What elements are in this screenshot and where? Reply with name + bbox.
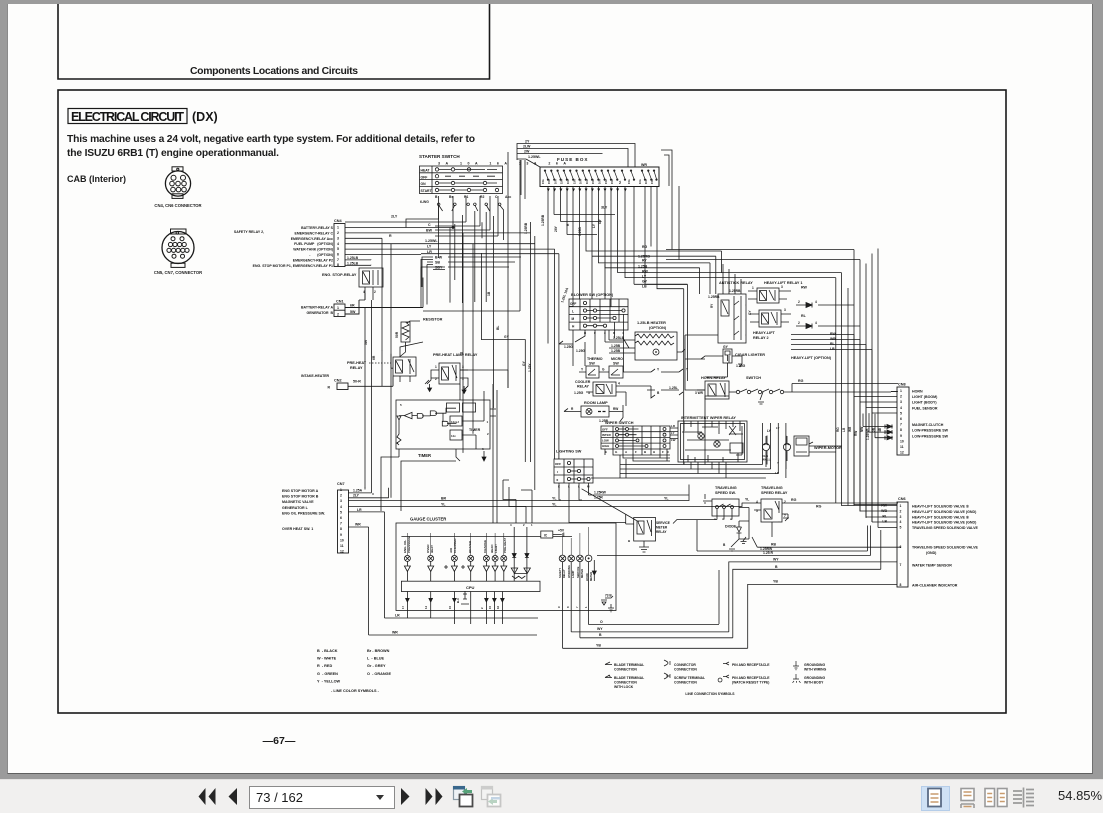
svg-text:OFF: OFF [421,175,428,179]
svg-text:B-C: B-C [456,598,460,603]
svg-text:6-WG: 6-WG [420,200,429,204]
svg-text:L: L [572,310,574,314]
svg-text:Y: Y [581,368,584,372]
svg-text:CN8: CN8 [898,383,906,387]
svg-text:WR: WR [355,523,361,527]
svg-text:THERMO: THERMO [587,357,603,361]
svg-text:LY: LY [427,245,432,249]
wire bundle mid verticals [423,152,559,523]
svg-text:YB: YB [596,644,601,648]
svg-text:LIGHT (BODY): LIGHT (BODY) [912,401,937,405]
blower switch SW2 (option) [560,287,628,342]
svg-text:ENG STOP MOTOR B: ENG STOP MOTOR B [282,495,319,499]
IC block +5V [401,529,572,539]
svg-text:RY: RY [642,259,647,263]
svg-text:1: 1 [531,523,533,527]
svg-text:1.25 R: 1.25 R [763,551,774,555]
svg-text:1.25R: 1.25R [594,496,603,500]
svg-text:RW: RW [801,286,808,290]
svg-text:1: 1 [337,226,339,230]
svg-text:WITH BODY: WITH BODY [804,681,824,685]
svg-text:W - WHITE: W - WHITE [317,657,337,661]
svg-text:H: H [572,325,575,329]
svg-text:WY: WY [597,627,603,631]
svg-text:5: 5 [337,247,339,251]
svg-text:14xxJ: 14xxJ [451,420,459,424]
svg-text:1.25LB HEATER: 1.25LB HEATER [637,321,666,325]
svg-text:NW: NW [860,427,864,432]
svg-text:8: 8 [340,527,342,531]
svg-text:GENERATOR L: GENERATOR L [282,506,309,510]
resistor R1 [395,318,443,358]
svg-text:14x: 14x [451,434,456,438]
svg-text:15A: 15A [572,179,576,184]
svg-text:WR: WR [641,163,647,167]
connector CN8 [885,383,949,456]
svg-text:M: M [572,317,575,321]
svg-text:YL: YL [745,498,749,502]
svg-text:HEAVY-LIFT: HEAVY-LIFT [753,331,776,335]
diode D1 diode D2 (heavy lift) [796,300,817,329]
prev page button [226,786,240,808]
svg-text:HEAVY-LIFT SOLENOID VALVE (: HEAVY-LIFT SOLENOID VALVE (GND) [912,510,977,514]
svg-text:PIN AND RECEPTACLE: PIN AND RECEPTACLE [732,676,770,680]
svg-text:HORN: HORN [912,390,923,394]
svg-text:CLEANER: CLEANER [453,538,457,553]
svg-text:SW: SW [613,362,619,366]
svg-text:B: B [775,565,778,569]
svg-text:YL: YL [441,503,446,507]
main frame [58,90,1006,713]
wires starter to CN4 and down [345,196,528,303]
svg-text:RELAY: RELAY [656,530,667,534]
gauge cluster assembly [263,152,901,747]
svg-text:15A: 15A [547,179,551,184]
CAB (Interior) label [67,174,126,184]
wires CN4 band to lower left [421,222,521,453]
svg-text:2W: 2W [524,150,530,154]
svg-text:LR: LR [671,424,676,428]
heavy-lift option label [791,356,832,360]
svg-text:TIMER: TIMER [469,428,481,432]
svg-text:I: I [557,470,558,474]
svg-text:SB: SB [435,261,440,265]
svg-text:A: A [625,450,628,454]
svg-text:R: R [389,234,392,238]
svg-text:PRE-HEAT: PRE-HEAT [347,361,367,365]
svg-text:(DX): (DX) [192,110,218,124]
svg-text:4: 4 [337,242,339,246]
svg-text:B: B [644,450,647,454]
svg-text:15A: 15A [591,179,595,184]
svg-text:1.25B: 1.25B [611,344,621,348]
svg-text:YB: YB [773,580,778,584]
connector CN4 [334,219,345,267]
svg-text:26Y: 26Y [554,225,558,232]
svg-text:2: 2 [900,509,902,513]
svg-text:2LY: 2LY [353,494,360,498]
svg-text:10A: 10A [638,179,642,184]
connector CN5/CN7 [162,229,194,267]
svg-text:R: R [571,407,574,411]
svg-text:F: F [662,450,664,454]
connector CN6 [881,497,978,588]
CN4 left labels [234,226,334,268]
last page button [423,786,445,808]
svg-text:RG: RG [836,427,840,432]
svg-text:GY: GY [723,345,729,349]
svg-text:CN1: CN1 [336,300,344,304]
svg-text:LR: LR [395,614,400,618]
svg-text:7: 7 [900,423,902,427]
svg-text:Y: Y [777,461,779,465]
svg-text:WATER-TANK (OPTION): WATER-TANK (OPTION) [293,248,333,252]
svg-text:LY: LY [592,223,596,228]
svg-text:5A: 5A [618,181,622,184]
svg-text:3: 3 [337,236,339,240]
svg-text:3 WR: 3 WR [695,391,704,395]
svg-text:2: 2 [900,395,902,399]
connector CN1 battery relay A [301,300,423,317]
svg-text:H: H [653,450,655,454]
svg-text:8: 8 [900,428,902,432]
svg-text:9: 9 [900,434,902,438]
svg-text:LR: LR [775,471,780,475]
svg-text:TIMER: TIMER [418,453,431,458]
paragraph [67,134,475,159]
svg-text:1: 1 [340,488,342,492]
relay K10 traveling speed relay [742,486,898,522]
svg-text:WITH LOCK: WITH LOCK [614,685,634,689]
svg-text:GROUNDING: GROUNDING [804,663,825,667]
svg-text:+5V: +5V [558,529,565,533]
svg-text:OFF: OFF [602,428,608,432]
wire bundle right verticals [684,249,897,528]
svg-text:PIN AND RECEPTACLE: PIN AND RECEPTACLE [732,663,770,667]
svg-text:3A 10A 16A 13A 26A: 3A 10A 16A 13A 26A [438,162,571,166]
svg-text:5: 5 [340,510,342,514]
svg-text:SBY: SBY [435,266,443,270]
svg-text:CN7: CN7 [337,482,345,486]
right lamps [558,527,596,611]
svg-text:C: C [495,195,498,199]
svg-text:15A: 15A [541,179,545,184]
svg-text:F: F [635,450,637,454]
svg-text:5W: 5W [350,310,356,314]
svg-text:15A: 15A [627,179,631,184]
svg-text:WY: WY [773,557,779,561]
svg-text:GENERATOR B: GENERATOR B [306,311,333,315]
diode D3 [723,521,742,551]
svg-text:SCREW TERMINAL: SCREW TERMINAL [674,676,705,680]
wiper switch SW5 [601,421,670,454]
svg-text:14: 14 [424,605,428,609]
svg-text:RG: RG [816,505,822,509]
svg-text:II: II [557,478,559,482]
svg-text:2: 2 [798,300,800,304]
wires wiper area [591,423,842,478]
svg-text:HEAVY-LIFT (OPTION): HEAVY-LIFT (OPTION) [791,356,832,360]
svg-text:9: 9 [557,606,561,608]
title ELECTRICAL CIRCUIT (DX) [71,110,218,124]
svg-text:1: 1 [435,365,437,369]
svg-text:4: 4 [340,505,342,509]
lighting switch SW6 [554,450,593,489]
svg-text:Y: Y [657,368,660,372]
svg-text:RELAY: RELAY [350,366,363,370]
svg-text:the ISUZU 6RB1 (T) engine oper: the ISUZU 6RB1 (T) engine operationmanua… [67,148,279,159]
svg-text:Br - BROWN: Br - BROWN [367,649,390,653]
svg-text:15: 15 [488,605,492,609]
svg-text:RW: RW [854,431,858,436]
svg-text:RG: RG [798,379,804,383]
svg-text:CN5, CN7, CONNECTOR: CN5, CN7, CONNECTOR [154,270,202,275]
svg-text:2: 2 [487,432,489,436]
svg-text:6R: 6R [350,304,355,308]
svg-text:GY: GY [642,280,648,284]
svg-text:ENG STOP MOTOR A: ENG STOP MOTOR A [282,489,319,493]
svg-text:B: B [584,331,587,335]
svg-text:10A: 10A [644,179,648,184]
svg-text:7: 7 [784,514,786,518]
svg-text:—67—: —67— [263,735,296,747]
svg-text:1: 1 [900,504,902,508]
svg-text:2: 2 [480,607,484,609]
svg-text:SW: SW [589,362,595,366]
svg-text:Gr - GREY: Gr - GREY [367,664,386,668]
svg-text:WR: WR [392,631,398,635]
svg-text:2: 2 [340,494,342,498]
svg-text:SPEED SW.: SPEED SW. [715,491,736,495]
svg-text:BUZZER: BUZZER [468,540,472,553]
connector CN7 [282,482,363,554]
svg-text:5: 5 [400,403,402,407]
svg-text:EMERGENCY-RELAY C: EMERGENCY-RELAY C [294,231,333,235]
svg-text:TRAVELING: TRAVELING [715,486,737,490]
svg-text:6: 6 [340,516,342,520]
wires horn RG run [685,335,898,462]
svg-text:4: 4 [510,523,512,527]
view continuous [954,786,981,809]
svg-text:2LW: 2LW [523,145,531,149]
svg-text:CONNECTOR: CONNECTOR [674,663,696,667]
nav back icon [451,785,477,809]
svg-text:1.25L: 1.25L [669,386,678,390]
svg-text:1: 1 [487,420,489,424]
svg-text:1.25A: 1.25A [353,489,363,493]
svg-text:1.25L 10A: 1.25L 10A [560,287,569,304]
wires heavy-lift to CN6 [791,305,897,528]
svg-text:1.25LB: 1.25LB [347,256,359,260]
svg-text:8: 8 [337,263,339,267]
svg-text:8: 8 [900,583,902,587]
svg-text:2: 2 [523,523,525,527]
svg-text:- (OPTION): - (OPTION) [309,253,333,257]
wires into CN8 [854,392,897,438]
svg-text:STARTER SWITCH: STARTER SWITCH [419,154,460,159]
svg-text:1.25RB: 1.25RB [638,255,650,259]
svg-text:WB: WB [848,426,852,432]
lamp L1 room lamp [564,401,623,423]
svg-text:LY: LY [776,426,780,430]
svg-text:4: 4 [815,321,817,325]
svg-text:B-W: B-W [435,256,443,260]
wires top feed (2Y/2LW/2W/1.25WL) [517,140,672,200]
svg-text:CN2: CN2 [334,379,342,383]
svg-text:12: 12 [900,451,904,455]
svg-text:RG: RG [642,245,648,249]
thermo switch SW3 / micro switch SW4 [579,357,689,378]
svg-text:METER: METER [589,572,593,581]
connector CN2 intake heater [301,374,393,390]
line connection symbols legend [605,660,827,696]
svg-text:B: B [723,543,726,547]
svg-text:GAUGE CLUSTER: GAUGE CLUSTER [410,517,446,522]
wires left column to frame [365,259,456,511]
svg-text:B: B [657,391,660,395]
relay K6 heavy-lift relay 1 [748,281,808,303]
svg-text:4: 4 [618,382,620,386]
svg-text:RL: RL [801,314,807,318]
svg-text:(OPTION): (OPTION) [649,326,667,330]
svg-text:O: O [600,620,603,624]
svg-text:10: 10 [900,439,904,443]
view facing [983,786,1009,809]
svg-text:15A: 15A [604,179,608,184]
view book [1012,786,1036,809]
svg-text:YL: YL [552,497,557,501]
svg-text:RESISTOR: RESISTOR [423,318,443,322]
wires top right frame runs [666,186,860,260]
relay K5 antistick relay [708,281,753,349]
svg-text:2Y: 2Y [525,140,530,144]
svg-text:R - RED: R - RED [317,664,332,668]
svg-text:5: 5 [900,526,902,530]
svg-text:WITH WIRING: WITH WIRING [804,668,827,672]
svg-text:SPEED RELAY: SPEED RELAY [761,491,788,495]
gauge lamps row [404,533,506,561]
heater H1 (option) [609,321,685,360]
svg-text:2: 2 [337,231,339,235]
svg-text:Components Locations and Circu: Components Locations and Circuits [190,66,358,77]
svg-text:ROOM LAMP: ROOM LAMP [584,401,608,405]
svg-text:FUEL SENSOR: FUEL SENSOR [912,406,938,410]
svg-text:ENG. STOP MOTOR P1, EMERGENCY-: ENG. STOP MOTOR P1, EMERGENCY-RELAY P1 [253,264,333,268]
svg-text:15A: 15A [650,179,654,184]
svg-text:15: 15 [448,605,452,609]
svg-text:TRAVELING SPEED SOLENOID VA: TRAVELING SPEED SOLENOID VALVE [912,526,978,530]
svg-text:SAFETY RELAY 2,: SAFETY RELAY 2, [234,230,264,234]
svg-text:10A: 10A [598,179,602,184]
svg-text:OFF: OFF [555,462,561,466]
svg-text:12: 12 [340,550,344,554]
svg-text:ELECTRICAL CIRCUIT: ELECTRICAL CIRCUIT [71,110,184,124]
wire labels RW WB RL LB [830,332,836,351]
header title text [190,66,358,77]
zoom level [1058,788,1102,803]
svg-text:6: 6 [900,417,902,421]
svg-text:CONNECTION: CONNECTION [674,681,697,685]
svg-text:50-R: 50-R [353,380,361,384]
svg-text:BL: BL [496,326,500,330]
svg-text:COOLER: COOLER [575,380,591,384]
svg-text:R2: R2 [480,195,484,199]
svg-text:HEAVY-LIFT RELAY 1: HEAVY-LIFT RELAY 1 [764,281,803,285]
svg-text:RL: RL [882,514,888,518]
svg-text:FUEL PUMP (OPTION): FUEL PUMP (OPTION) [294,242,333,246]
svg-text:WIPER SWITCH: WIPER SWITCH [605,421,634,425]
svg-text:6R: 6R [372,355,376,360]
svg-text:BLOWER SW (OPTION): BLOWER SW (OPTION) [571,293,614,297]
svg-text:10: 10 [340,538,344,542]
svg-text:RY: RY [710,303,714,308]
gauge gates row [404,561,506,581]
svg-text:RG: RG [791,498,797,502]
svg-text:LIGHT (BOOM): LIGHT (BOOM) [912,395,938,399]
svg-text:G: G [615,450,618,454]
svg-text:WR: WR [717,390,723,394]
zener diodes in gauge [512,527,529,581]
svg-text:AIR-CLEANER INDICATOR: AIR-CLEANER INDICATOR [912,584,958,588]
svg-text:WB: WB [830,337,836,341]
svg-text:10A: 10A [566,179,570,184]
svg-text:1.25Y: 1.25Y [528,363,532,372]
svg-text:1.25WL: 1.25WL [528,155,541,159]
svg-text:3: 3 [900,515,902,519]
relay K1 eng stop relay [322,268,383,300]
svg-text:- LINE COLOR SYMBOLS -: - LINE COLOR SYMBOLS - [331,689,380,693]
svg-text:BR: BR [441,497,447,501]
svg-text:1.25RW: 1.25RW [760,547,773,551]
svg-text:LY: LY [671,431,675,435]
svg-text:1.25RB: 1.25RB [524,222,528,234]
svg-text:1: 1 [900,389,902,393]
connector CN4/CN6 [165,167,190,199]
svg-text:ENG. STOP-RELAY: ENG. STOP-RELAY [322,273,357,277]
svg-text:(GND): (GND) [926,551,937,555]
svg-text:WIPER-MOTOR: WIPER-MOTOR [814,446,842,450]
svg-text:1.25B: 1.25B [611,349,621,353]
svg-text:LY: LY [642,275,647,279]
svg-text:LW: LW [671,438,676,442]
wire verticals mid-left [359,238,427,498]
first page button [196,786,218,808]
svg-text:HEAT: HEAT [421,169,431,173]
svg-text:This machine uses a 24 volt, n: This machine uses a 24 volt, negative ea… [67,134,475,145]
svg-text:ON: ON [421,182,427,186]
svg-text:4: 4 [900,406,902,410]
svg-text:DIODE: DIODE [725,525,737,529]
svg-text:BATTERY-RELAY A: BATTERY-RELAY A [301,306,333,310]
svg-text:11: 11 [340,544,344,548]
motor M1 wiper motor [762,429,842,467]
svg-text:RW: RW [642,270,648,274]
svg-text:3: 3 [340,499,342,503]
svg-text:INTER: INTER [602,433,612,437]
svg-text:YL: YL [552,503,557,507]
nav forward icon (disabled) [479,785,505,809]
svg-text:MAGNETIC VALVE: MAGNETIC VALVE [282,500,314,504]
wire staircase to right side [586,201,836,289]
svg-text:TRAVELING SPEED SOLENOID VA: TRAVELING SPEED SOLENOID VALVE [912,546,978,550]
svg-text:GY: GY [504,335,510,339]
svg-text:1.25B: 1.25B [638,265,648,269]
wires cigar antistick feeds [685,264,746,377]
svg-text:LIGHTING SW: LIGHTING SW [556,450,582,454]
service meter relay K11 [626,514,670,552]
svg-text:n: n [714,517,716,521]
svg-text:7: 7 [340,522,342,526]
